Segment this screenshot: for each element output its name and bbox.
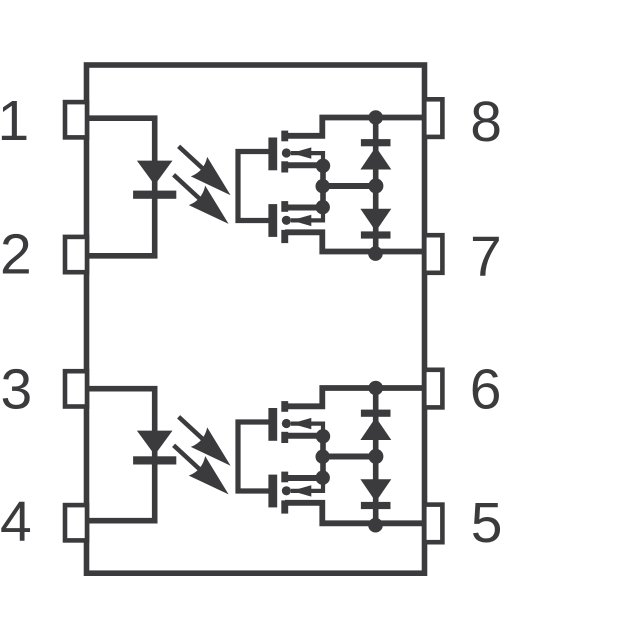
svg-text:1: 1 [0,89,29,153]
junction node: rail midpoint [316,179,330,193]
body diode D1a (cathode up) [360,139,391,169]
junction node: diode bottom / pin 7 [368,246,383,261]
wire: body diode ladder [373,118,379,252]
svg-text:8: 8 [470,90,502,154]
light emission arrow 2 [174,445,229,494]
junction node: upper source [316,429,330,443]
pin 3 lead box [65,371,87,406]
junction node: lower source [316,471,330,485]
body diode D2b (cathode down) [360,479,391,509]
svg-text:4: 4 [0,490,32,554]
wire: common source rail [320,436,326,478]
junction node: diode top / pin 8 [368,110,383,125]
pin 8 lead box [424,99,442,137]
junction node: diode bottom / pin 5 [368,518,383,533]
MOSFET Q1b (lower output FET) [268,201,323,243]
junction node: lower source [316,200,330,214]
photodetector / gate drive bracket wire [238,152,269,221]
wire: Q2a drain to pin 6 [285,388,423,406]
pin 2 lead box [65,237,87,272]
junction node: rail midpoint [316,450,330,464]
MOSFET Q2a (upper output FET) [268,401,323,443]
svg-text:6: 6 [470,357,502,421]
body diode D2a (cathode up) [360,410,391,440]
svg-text:5: 5 [471,491,503,555]
junction node: diode midpoint [368,178,383,193]
svg-text:2: 2 [0,223,32,287]
pin 5 lead box [424,505,442,543]
pin 1 lead box [65,102,87,137]
LED D1 (infrared emitter) [133,161,176,199]
wire: common source rail [320,165,326,207]
pin 4 lead box [65,505,87,540]
wire: Q1a source stub [285,162,323,168]
junction node: diode top / pin 6 [368,381,383,396]
junction node: diode midpoint [368,449,383,464]
photodetector / gate drive bracket wire [238,422,269,491]
svg-text:3: 3 [1,358,33,422]
wire: body diode ladder [373,388,379,523]
MOSFET Q1a (upper output FET) [268,131,323,173]
IC body outline [87,65,425,573]
body diode D1b (cathode down) [360,209,391,239]
LED D2 (infrared emitter) [133,431,176,465]
wire: Q2b drain to pin 5 [285,503,423,524]
MOSFET Q2b (lower output FET) [268,472,323,514]
light emission arrow 2 [174,175,229,224]
wire: Q1b source stub [285,205,323,211]
wire: Q1a drain to pin 8 [285,118,423,136]
junction node: upper source [316,159,330,173]
svg-text:7: 7 [470,225,502,289]
wire: Q1b drain to pin 7 [285,232,423,251]
light emission arrow 1 [179,417,231,466]
pin 6 lead box [424,370,442,408]
pin 7 lead box [424,235,442,273]
wire: source rail to body-diode midpoint [323,454,376,460]
wire: Q2a source stub [285,433,323,439]
wire: pin 1 to LED anode and LED cathode to pin 2 [86,118,155,256]
light emission arrow 1 [179,146,231,195]
wire: pin 3 to LED anode and LED cathode to pin 4 [86,389,155,521]
wire: Q2b source stub [285,475,323,481]
wire: source rail to body-diode midpoint [323,183,376,189]
